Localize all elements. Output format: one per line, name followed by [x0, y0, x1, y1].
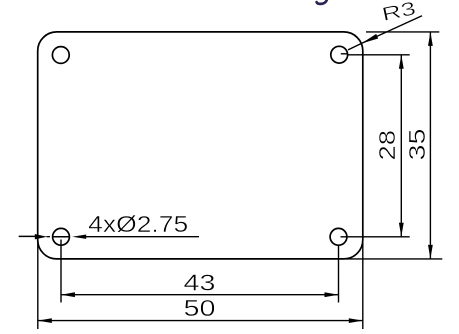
dimension text 28: [374, 130, 400, 161]
dimension text 50: [184, 295, 216, 321]
cropped blue heading glyph: [317, 0, 328, 4]
edge arrow at bottom-left plate edge: [19, 234, 50, 239]
dimension line 50: [38, 318, 363, 323]
dimension line 35: [428, 32, 433, 259]
leader text 4xdia2.75: [88, 211, 188, 237]
extension line bottom edge right: [346, 258, 442, 260]
extension line below bottom-right hole: [338, 245, 340, 302]
extension line top-right hole center right: [347, 54, 409, 56]
hole bottom-right: [330, 228, 347, 245]
extension line left plate edge down: [37, 240, 39, 330]
hole bottom-left: [53, 228, 70, 245]
svg-text:50: 50: [184, 295, 216, 321]
svg-text:28: 28: [374, 130, 400, 161]
hole top-right: [331, 46, 348, 63]
extension line right plate edge down: [362, 240, 364, 330]
hole top-left: [52, 47, 69, 64]
svg-text:43: 43: [184, 269, 216, 295]
svg-text:4xØ2.75: 4xØ2.75: [88, 211, 188, 237]
dimension text 35: [404, 129, 430, 161]
extension line bottom-right hole center right: [341, 236, 410, 238]
svg-text:35: 35: [404, 129, 430, 161]
extension line top edge right: [366, 31, 439, 33]
dimension line 43: [61, 292, 339, 297]
extension line below bottom-left hole: [60, 240, 62, 303]
svg-text:R3: R3: [380, 0, 418, 26]
leader R3: [341, 16, 422, 54]
dimension text 43: [184, 269, 216, 295]
plate outline: [38, 32, 363, 259]
label R3: [380, 0, 418, 26]
centerline through bottom-left hole: [52, 236, 69, 238]
leader line 4xdia2.75: [72, 235, 199, 239]
dimension line 28: [399, 55, 404, 237]
